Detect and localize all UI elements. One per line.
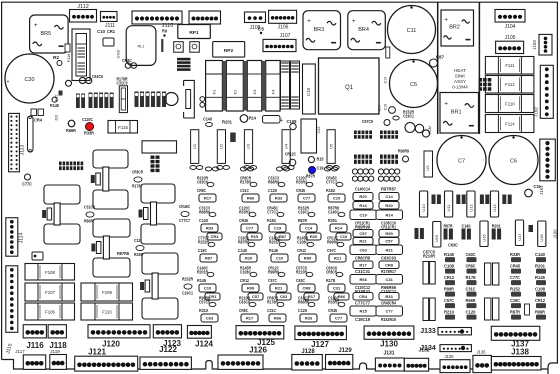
connector J119 — [50, 355, 67, 370]
connector J125 — [236, 326, 284, 339]
svg-text:R152R15: R152R15 — [381, 317, 396, 322]
svg-text:U18: U18 — [539, 234, 544, 242]
part col x389 y261 — [379, 261, 399, 269]
fuse F114b — [485, 115, 534, 133]
switch block 2 col x363 — [354, 155, 372, 164]
svg-text:R87: R87 — [279, 234, 287, 239]
connector J122 — [140, 357, 191, 369]
capacitor C7 — [437, 136, 486, 185]
component group col x248 row 4 — [240, 265, 252, 274]
svg-text:R9: R9 — [162, 28, 167, 33]
part col x389 y256 — [381, 255, 397, 260]
svg-text:C63C6: C63C6 — [197, 179, 208, 184]
component group col x336 row 5 — [328, 295, 340, 304]
label W1 — [34, 117, 42, 122]
connector J127 — [295, 326, 347, 340]
LED DS2 red — [82, 117, 94, 122]
svg-text:J105: J105 — [505, 35, 516, 41]
terminal grid E4 — [479, 78, 492, 91]
svg-text:CR45CR4: CR45CR4 — [381, 300, 396, 305]
svg-text:C63C6: C63C6 — [239, 299, 250, 304]
svg-text:J116: J116 — [26, 341, 44, 350]
connector J120 — [88, 325, 150, 338]
heatsink pad pair Q14 — [140, 253, 194, 319]
svg-text:C19: C19 — [333, 196, 341, 201]
svg-text:C77C7: C77C7 — [179, 218, 190, 223]
svg-text:U13: U13 — [492, 204, 497, 212]
svg-text:C10: C10 — [97, 29, 106, 34]
svg-text:R17: R17 — [308, 294, 316, 299]
capacitor under U4 — [281, 166, 287, 170]
part col x363 y306 — [350, 306, 377, 316]
svg-text:CR8CR: CR8CR — [132, 169, 144, 174]
svg-text:J127: J127 — [311, 340, 329, 349]
svg-text:R145: R145 — [535, 275, 546, 280]
svg-text:C6: C6 — [510, 159, 517, 165]
svg-text:R99R9: R99R9 — [327, 239, 338, 244]
svg-text:C63C: C63C — [448, 242, 459, 247]
svg-text:CR12: CR12 — [535, 298, 545, 303]
svg-text:C18: C18 — [384, 104, 388, 110]
svg-text:C140C14: C140C14 — [355, 186, 370, 191]
svg-text:CR12C: CR12C — [285, 151, 297, 156]
svg-text:+: + — [34, 22, 38, 29]
resistor R183 + pad — [285, 151, 297, 156]
connector J115 — [6, 266, 18, 333]
svg-text:F107: F107 — [45, 290, 55, 295]
svg-text:J133: J133 — [420, 328, 436, 335]
svg-text:C57: C57 — [252, 294, 260, 299]
connector J121 — [75, 356, 138, 371]
connector J105 — [496, 41, 524, 53]
connector J123 — [153, 325, 181, 338]
connector J117 — [23, 355, 45, 370]
svg-text:J100: J100 — [553, 229, 558, 239]
svg-text:C19C1: C19C1 — [403, 113, 414, 118]
svg-text:R87R8: R87R8 — [238, 239, 249, 244]
svg-text:R87R: R87R — [510, 309, 521, 314]
resistors R5-R8 — [177, 58, 191, 61]
svg-text:C31C: C31C — [267, 308, 277, 313]
svg-text:CR4: CR4 — [359, 294, 368, 299]
part col x363 y210 — [350, 210, 377, 220]
svg-text:R99R: R99R — [444, 286, 455, 291]
fuse F107 — [25, 283, 75, 301]
cap pairs row A — [432, 195, 436, 205]
connector J108 — [245, 12, 266, 23]
connector J126 — [218, 355, 263, 369]
svg-text:U5: U5 — [328, 143, 333, 149]
svg-text:R20: R20 — [245, 256, 253, 261]
svg-text:C63: C63 — [360, 247, 368, 252]
svg-text:Q1: Q1 — [345, 85, 354, 91]
svg-text:R210R: R210R — [423, 253, 436, 258]
svg-text:R87R: R87R — [298, 218, 308, 223]
svg-text:C77C7: C77C7 — [326, 179, 337, 184]
svg-text:C31C3: C31C3 — [84, 204, 95, 209]
LED DS2 red — [85, 122, 94, 131]
svg-text:C7: C7 — [458, 159, 465, 165]
svg-text:R33: R33 — [305, 316, 313, 321]
svg-text:J117: J117 — [15, 349, 25, 354]
LED DS1 white — [68, 120, 75, 127]
svg-text:R33R3: R33R3 — [328, 299, 339, 304]
relay bank K1-K4 — [206, 61, 281, 112]
svg-text:C77C: C77C — [22, 181, 33, 186]
jumper W1 — [28, 116, 34, 152]
connector J107 — [263, 39, 296, 51]
svg-text:CR4: CR4 — [210, 234, 219, 239]
part col x363 y269.5 — [355, 269, 371, 274]
component group col x336 row 2 — [328, 205, 340, 214]
svg-text:R33R: R33R — [510, 252, 521, 257]
IC U6 small — [230, 133, 236, 143]
svg-text:BR2: BR2 — [449, 25, 460, 31]
svg-text:CR12CR1: CR12CR1 — [381, 224, 396, 229]
pad P3 — [525, 189, 533, 197]
svg-text:C14: C14 — [378, 105, 382, 111]
svg-text:+: + — [444, 101, 448, 108]
svg-text:C19: C19 — [274, 226, 282, 231]
svg-text:CR45: CR45 — [296, 188, 305, 193]
IC U2 — [217, 130, 225, 164]
svg-text:R87: R87 — [205, 256, 213, 261]
svg-text:R99: R99 — [385, 231, 393, 236]
varistor RV1 — [103, 38, 114, 46]
svg-text:CR12: CR12 — [240, 278, 249, 283]
svg-text:C140: C140 — [203, 116, 212, 121]
svg-text:F115: F115 — [118, 125, 128, 130]
svg-text:R87R: R87R — [306, 173, 316, 178]
small part — [525, 304, 530, 315]
capacitor C6 — [489, 136, 538, 185]
svg-text:RP2: RP2 — [224, 48, 234, 54]
component group col x277 row 4 — [268, 265, 280, 274]
svg-text:R33: R33 — [275, 196, 283, 201]
connector J135 — [440, 360, 470, 373]
cap pair C21 — [125, 63, 131, 69]
bridge rectifier BR3 — [303, 11, 341, 50]
part col x363 y229.5 — [353, 230, 373, 238]
svg-text:R99R: R99R — [535, 309, 546, 314]
svg-text:R66R6: R66R6 — [199, 209, 210, 214]
svg-text:F109: F109 — [102, 290, 112, 295]
svg-text:R17: R17 — [204, 196, 212, 201]
svg-text:C5: C5 — [258, 26, 265, 31]
svg-text:R152: R152 — [267, 218, 276, 223]
svg-text:R87: R87 — [436, 54, 445, 59]
svg-text:C14: C14 — [385, 194, 393, 199]
svg-text:C31C31: C31C31 — [355, 269, 371, 274]
svg-text:R33: R33 — [206, 226, 214, 231]
capacitor bar array CB2 — [135, 92, 167, 108]
capacitor C2 — [190, 42, 200, 53]
svg-text:J107: J107 — [280, 33, 291, 39]
capacitor pad pair top — [276, 167, 282, 171]
capacitor C8 — [405, 123, 415, 133]
svg-text:C120: C120 — [268, 188, 277, 193]
capacitor under U2 — [217, 166, 223, 170]
fuse F113b — [485, 95, 534, 113]
svg-text:R87R87: R87R87 — [381, 186, 397, 191]
svg-text:U4: U4 — [283, 143, 288, 149]
capacitor pad pair top — [240, 167, 246, 171]
svg-text:R66R6: R66R6 — [268, 179, 279, 184]
svg-text:C30: C30 — [24, 77, 34, 83]
svg-text:CR8CR8: CR8CR8 — [355, 255, 370, 260]
pad grid col x363 — [352, 169, 373, 181]
heatsink pad pair Q11 — [42, 185, 95, 244]
svg-text:+: + — [307, 18, 311, 25]
label R147 — [117, 251, 129, 256]
part col x389 y301 — [381, 300, 396, 305]
connector J112 — [70, 10, 97, 23]
bridge rectifier BR2 — [441, 10, 474, 46]
svg-text:C31C: C31C — [466, 286, 477, 291]
svg-text:R66R6: R66R6 — [298, 299, 309, 304]
resistor R11 — [403, 109, 415, 118]
svg-text:R201: R201 — [535, 263, 546, 268]
svg-text:C120C: C120C — [82, 117, 94, 122]
svg-text:R210: R210 — [444, 309, 455, 314]
capacitor C1 — [174, 42, 184, 53]
svg-text:R21: R21 — [386, 247, 394, 252]
connector J128 — [292, 355, 323, 371]
trimpot VR5 — [52, 97, 57, 102]
svg-text:HEAT: HEAT — [454, 68, 466, 73]
component group col x306 row 2 — [298, 205, 310, 214]
heatsink pad pair Q10 — [91, 150, 144, 209]
resistor pack RP3 — [142, 141, 177, 153]
part col x363 y292.5 — [353, 293, 373, 301]
svg-text:F111: F111 — [505, 63, 515, 68]
part col x389 y192.5 — [379, 193, 399, 201]
svg-text:U16: U16 — [481, 234, 486, 242]
svg-text:J113: J113 — [20, 145, 26, 156]
component group col x306 row 3 — [297, 235, 309, 244]
label-part column x444 — [444, 252, 455, 257]
fuse F115 — [108, 121, 138, 134]
component group col x248 row 5 — [239, 295, 251, 304]
part col x363 y192.5 — [353, 193, 373, 201]
svg-text:ASSY: ASSY — [454, 79, 466, 84]
component group col x248 row 3 — [238, 235, 249, 244]
connector J133 — [438, 328, 471, 335]
test point E2 — [258, 26, 265, 31]
svg-text:C63: C63 — [206, 316, 214, 321]
svg-text:F112: F112 — [505, 82, 515, 87]
part col x389 y317.5 — [381, 317, 396, 322]
bridge rectifier BR5 — [30, 15, 69, 53]
svg-text:R2: R2 — [53, 55, 60, 60]
part col x389 y221 — [381, 220, 396, 229]
svg-text:R21: R21 — [275, 286, 283, 291]
fuse F106 — [25, 303, 75, 320]
svg-text:R17: R17 — [359, 262, 367, 267]
connector J102 — [540, 65, 553, 118]
transistor Q3 — [165, 93, 178, 106]
capacitor C13 — [386, 47, 390, 58]
fuse holder F116 — [72, 29, 90, 81]
svg-text:R66: R66 — [360, 277, 368, 282]
svg-text:C108: C108 — [535, 286, 546, 291]
connector J114 — [6, 218, 18, 257]
svg-text:C31C: C31C — [240, 188, 250, 193]
svg-text:R20: R20 — [310, 234, 318, 239]
svg-text:R15: R15 — [360, 309, 368, 314]
part col x363 y261 — [353, 261, 373, 269]
capacitor C16 polarized — [263, 116, 281, 124]
component group col x277 row 1 — [268, 175, 279, 184]
svg-text:R21: R21 — [334, 256, 342, 261]
fuse F109 — [81, 283, 133, 301]
svg-text:R145: R145 — [444, 252, 455, 257]
svg-text:R87R8: R87R8 — [117, 251, 129, 256]
fuse F113 — [281, 61, 290, 109]
svg-text:R33: R33 — [385, 294, 393, 299]
capacitor C30 — [5, 54, 54, 103]
label-part column x535 — [535, 252, 546, 257]
relay K5 — [126, 26, 156, 66]
svg-text:R66: R66 — [247, 196, 255, 201]
svg-text:U2: U2 — [219, 143, 224, 149]
svg-text:C19: C19 — [384, 77, 388, 83]
connector J118 — [48, 325, 66, 338]
terminal E6 — [161, 39, 163, 52]
svg-text:U17: U17 — [517, 233, 522, 241]
component group col x207 row 4 — [197, 265, 209, 274]
svg-text:F106: F106 — [45, 310, 55, 315]
regulators row B — [433, 222, 441, 248]
svg-text:C19C1: C19C1 — [298, 209, 309, 214]
svg-text:C77: C77 — [303, 196, 311, 201]
svg-text:GND: GND — [116, 49, 121, 58]
svg-text:R152: R152 — [326, 188, 335, 193]
svg-text:J130: J130 — [380, 340, 398, 349]
connector J101 — [540, 139, 556, 181]
part col x363 y256 — [355, 255, 370, 260]
test point E1 — [162, 28, 167, 33]
component group col x336 row 3 — [327, 235, 339, 244]
component group col x306 row 4 — [296, 265, 308, 274]
svg-text:CR45: CR45 — [510, 263, 520, 268]
svg-text:C120: C120 — [466, 309, 477, 314]
capacitor C5 — [390, 60, 438, 108]
svg-text:R21: R21 — [359, 239, 367, 244]
svg-text:R33R3: R33R3 — [296, 179, 307, 184]
svg-text:C77: C77 — [246, 226, 254, 231]
svg-text:C63C6: C63C6 — [92, 74, 103, 79]
capacitor pad pair top — [205, 167, 211, 171]
svg-text:F110: F110 — [102, 310, 112, 315]
svg-text:C57C5: C57C5 — [362, 119, 373, 124]
svg-text:C57C: C57C — [327, 248, 337, 253]
part col x389 y292.5 — [379, 293, 399, 301]
svg-text:F108: F108 — [45, 270, 55, 275]
IC U4 — [282, 130, 290, 164]
svg-text:J119: J119 — [50, 349, 60, 354]
pads left of relay bank — [200, 97, 205, 102]
svg-text:R99R9: R99R9 — [398, 148, 409, 153]
svg-text:R66R: R66R — [466, 298, 477, 303]
LED DS4 blue — [308, 157, 314, 163]
part col x389 y201.5 — [379, 202, 399, 210]
svg-text:CR8C: CR8C — [466, 263, 477, 268]
svg-text:R15: R15 — [317, 156, 324, 161]
svg-text:C10: C10 — [204, 286, 212, 291]
svg-text:J112: J112 — [77, 4, 89, 10]
resistor R184 + pad — [398, 148, 409, 153]
svg-text:0-13044: 0-13044 — [452, 85, 468, 90]
svg-text:R14: R14 — [386, 212, 394, 217]
svg-text:C120: C120 — [199, 218, 208, 223]
svg-text:CR45: CR45 — [328, 308, 337, 313]
svg-text:R99: R99 — [304, 256, 312, 261]
svg-text:RL1: RL1 — [138, 45, 145, 49]
regulators row A — [420, 191, 428, 217]
connector J116 — [23, 325, 46, 338]
svg-text:C19C1: C19C1 — [182, 290, 193, 295]
connector J113 — [9, 113, 20, 171]
svg-text:R201: R201 — [222, 119, 233, 124]
svg-text:R178: R178 — [326, 278, 335, 283]
svg-text:CR8C: CR8C — [197, 188, 207, 193]
part col x363 y301 — [355, 300, 371, 305]
svg-text:R201: R201 — [328, 218, 337, 223]
relay K6 — [301, 119, 317, 153]
resistor pair column RB — [485, 263, 491, 285]
fuse F111 — [485, 57, 534, 75]
component group col x207 row 1 — [197, 175, 209, 184]
svg-text:J126: J126 — [249, 346, 267, 355]
svg-text:SINK: SINK — [455, 74, 466, 79]
connector J110 — [132, 11, 182, 24]
svg-text:K2: K2 — [232, 89, 237, 95]
svg-text:CR12: CR12 — [444, 275, 454, 280]
part col x363 y237.5 — [353, 238, 373, 245]
svg-text:R66: R66 — [274, 316, 282, 321]
svg-text:C11: C11 — [407, 28, 417, 34]
connector J109 — [189, 11, 221, 24]
svg-text:R20: R20 — [359, 194, 367, 199]
IC U1 — [191, 130, 199, 164]
part col x363 y187 — [355, 186, 370, 191]
svg-text:R66R: R66R — [66, 128, 77, 133]
component group col x277 row 5 — [267, 295, 279, 304]
svg-text:C57: C57 — [385, 239, 393, 244]
fuse F112 — [485, 76, 534, 94]
svg-text:R99R9: R99R9 — [268, 269, 279, 274]
svg-text:F12: F12 — [54, 94, 59, 102]
svg-text:C57C: C57C — [444, 298, 455, 303]
connector J131 — [375, 358, 404, 371]
svg-text:U10: U10 — [421, 204, 426, 212]
svg-text:C19: C19 — [317, 165, 324, 170]
pad pair P2 — [79, 77, 85, 83]
capacitor C11 — [388, 6, 436, 54]
component group col x336 row 1 — [326, 175, 338, 184]
fuse F110 — [81, 303, 133, 320]
svg-text:BR1: BR1 — [451, 110, 462, 116]
part col x389 y306 — [376, 306, 403, 316]
trimmer C14 — [240, 115, 248, 123]
connector J130 — [364, 326, 414, 339]
svg-text:R14: R14 — [335, 226, 343, 231]
svg-text:C63C: C63C — [296, 278, 306, 283]
svg-text:U12: U12 — [468, 204, 473, 212]
svg-text:C108: C108 — [444, 263, 455, 268]
svg-text:F116: F116 — [66, 53, 71, 63]
